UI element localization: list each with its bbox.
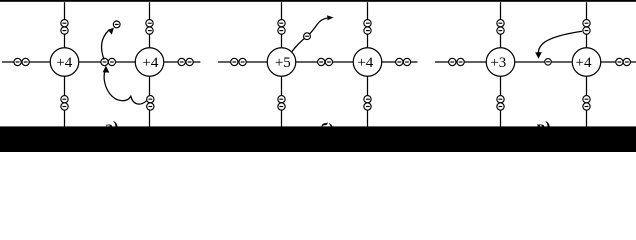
wire: group3 horizontal bond line [435,61,636,63]
electron pair: C1 bottom bond [497,96,504,111]
svg-text:+5: +5 [275,55,291,71]
atom A1 (+4) [50,48,79,77]
wire: group1 horizontal bond line [2,61,200,63]
arrow: group2 donor electron leaving B1 [292,15,334,51]
atom B2 (+4) [353,48,382,77]
electron pair: B1 left bond [231,58,247,65]
electron pair: bond between B1 and B2 [318,58,333,65]
wire: atom B1 vertical bond line [281,2,283,127]
arrow: group1 electron hop from A2 bottom pair into the hole [103,66,147,104]
electron pair: C2 bottom bond [583,96,590,111]
electron pairs: each small circle is an electron with a minus sign [14,20,630,111]
wire: atom B2 vertical bond line [367,2,369,127]
svg-text:+4: +4 [576,55,592,71]
wire: atom C1 vertical bond line [500,2,502,127]
free electron: group1 (escaped electron) [113,21,120,28]
wire: group2 horizontal bond line [218,61,418,63]
electron pair: B2 right bond [396,58,411,65]
arrow: group3 electron from C2 top pair moving into the hole at C1-C2 bond [535,31,582,59]
atom C2 (+4) [572,48,601,77]
svg-text:+4: +4 [357,55,373,71]
atom A2 (+4) [135,48,164,77]
single electron: bond between C1 and C2 (hole site) [545,59,552,66]
electron pair: B1 bottom bond [278,96,285,111]
svg-text:+3: +3 [490,55,506,71]
electron pair: B1 top bond [278,20,285,35]
electron pair: C1 left bond [449,58,465,65]
wire: atom A2 vertical bond line [149,2,151,127]
free electron: group2 (donor electron on the arrow path) [304,33,311,40]
electron pair: A1 bottom bond [61,96,68,111]
electron pair: A2 bottom bond [147,96,154,111]
electron pair: C1 top bond [497,20,504,35]
top border line [0,0,636,2]
electron pair: A2 right bond [178,58,193,65]
electron pair: B2 top bond [364,20,371,35]
black bar covering caption at bottom [0,126,636,152]
wire: atom A1 vertical bond line [64,2,66,127]
wire: atom C2 vertical bond line [586,2,588,127]
atom B1 (+5) [267,48,296,77]
electron pair: bond between A1 and A2 [101,58,116,65]
electron pair: A2 top bond [146,20,153,35]
electron pair: B2 bottom bond [364,96,371,111]
electron pair: C2 right bond [616,58,631,65]
atom C1 (+3) [486,48,515,77]
arrow: group1 electron excitation from A1-A2 bond up to free electron [102,28,114,60]
svg-text:+4: +4 [56,55,72,71]
svg-text:+4: +4 [142,55,158,71]
electron pair: A1 left bond [14,58,29,65]
electron pair: C2 top bond [583,20,590,35]
electron pair: A1 top bond [61,20,68,35]
